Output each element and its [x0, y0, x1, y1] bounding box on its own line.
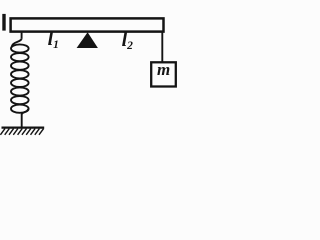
ground hatching: [0, 129, 43, 135]
spring lower rod (wire): [21, 114, 23, 127]
spring top hook: [12, 38, 22, 47]
mass box: [151, 62, 176, 86]
spring coil: [11, 44, 29, 112]
spring hanger rod (wire): [21, 31, 23, 38]
ground line: [2, 126, 45, 128]
string (wire to mass): [161, 31, 163, 63]
wall stub: [2, 14, 5, 31]
beam: [11, 18, 164, 31]
svg-text:m: m: [157, 60, 170, 79]
spring bottom hook: [22, 109, 28, 115]
fulcrum: [77, 32, 98, 48]
